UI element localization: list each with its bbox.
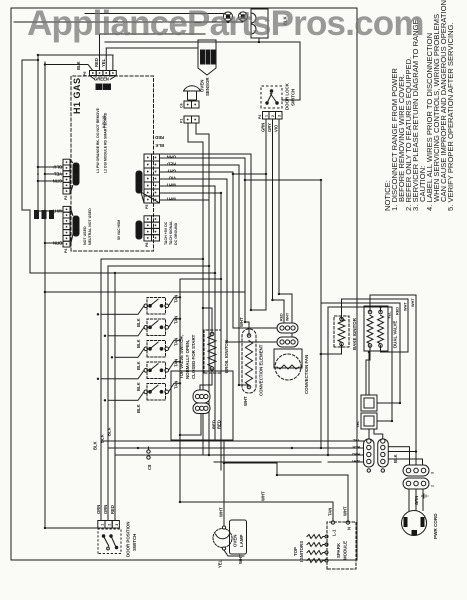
svg-text:CONVECTION ELEMENT: CONVECTION ELEMENT [259, 344, 264, 396]
wire P5 pin drop x435 [160, 164, 239, 166]
wire stub P4 pin WHT [38, 210, 63, 212]
wire valve bus ORN y108 [108, 266, 209, 521]
fan connector oval 1 [277, 323, 298, 333]
trunk wire y233 [232, 172, 234, 328]
svg-text:IGNITORS: IGNITORS [299, 541, 304, 562]
svg-text:RED: RED [280, 313, 284, 321]
wire TAN bus y180 [180, 279, 221, 502]
svg-text:BRN: BRN [53, 241, 62, 246]
convection fan motor [275, 354, 301, 380]
svg-text:BLK: BLK [76, 61, 81, 70]
connector pin marks [66, 72, 197, 245]
wire harness riser YEL x159 [101, 440, 364, 442]
GREEN label pills [96, 84, 111, 90]
svg-text:YEL: YEL [388, 311, 392, 319]
svg-text:SENSOR: SENSOR [205, 77, 210, 96]
svg-text:WHT: WHT [243, 396, 248, 406]
wire WHT riser x137 [224, 462, 277, 464]
svg-text:SPARK: SPARK [336, 542, 341, 558]
power cord plug [402, 511, 427, 536]
door lock motor box [251, 9, 268, 38]
wire bundle x308 [45, 291, 245, 293]
svg-text:BLK: BLK [136, 339, 141, 348]
connector P8 row [144, 216, 160, 241]
wire bake left [320, 344, 342, 354]
svg-text:DUAL VALVE: DUAL VALVE [393, 321, 398, 348]
wire spark WHT [277, 475, 348, 520]
trunk wire y203 [202, 142, 204, 455]
wire door lock motor lead [216, 38, 259, 42]
svg-text:TAN: TAN [174, 316, 179, 324]
svg-text:YEL: YEL [53, 172, 62, 177]
bake ignitor [334, 316, 349, 347]
svg-text:TACH SIGNAL: TACH SIGNAL [169, 220, 173, 245]
svg-text:50 VAC HSM: 50 VAC HSM [117, 220, 121, 240]
wire dual valve right coil1 [370, 295, 416, 312]
wire block A down [377, 420, 392, 422]
valve connector block B [361, 395, 377, 411]
svg-text:GRN: GRN [53, 179, 62, 184]
svg-text:ORN: ORN [96, 505, 101, 514]
wire dual valve left coil1 [366, 346, 370, 396]
svg-text:YEL: YEL [101, 58, 106, 67]
wire dual valve right 2 [380, 307, 382, 312]
svg-text:NORMALLY OPEN,: NORMALLY OPEN, [185, 340, 190, 379]
svg-text:1: 1 [101, 524, 105, 526]
wire long y321 [321, 303, 400, 448]
connector pill WHITE P5 [136, 171, 142, 193]
svg-text:TOP: TOP [293, 547, 298, 556]
wire valve bus ORN y101 [101, 259, 203, 521]
svg-text:WHT: WHT [286, 312, 290, 321]
trunk wire y209 [208, 134, 210, 455]
svg-text:PWR CORD: PWR CORD [433, 513, 438, 539]
svg-text:WHT: WHT [261, 491, 266, 501]
wire conv element left stub [239, 385, 249, 387]
wire right side x552 [106, 47, 198, 49]
wire drop x545 [38, 54, 113, 56]
connector pill WHITE P3 [73, 163, 79, 185]
wire stub P4 pin BRN [45, 242, 63, 244]
wire P5 pin drop x414 [160, 185, 215, 187]
svg-text:C8: C8 [147, 464, 152, 470]
wire terminal stub 1 [227, 20, 229, 23]
wire valve harness y392 [391, 307, 393, 421]
svg-text:WHITE: WHITE [137, 177, 142, 190]
wire cord neutral long y416 [415, 295, 417, 452]
svg-text:BAKE IGNITOR: BAKE IGNITOR [352, 317, 357, 350]
igniter connector oval 2 [193, 403, 210, 414]
wire bus y22 [22, 60, 38, 210]
svg-text:3: 3 [278, 115, 282, 117]
spark module [327, 521, 356, 569]
wire pills to block [368, 429, 370, 439]
trunk wire y245 [244, 158, 246, 322]
svg-text:BLK: BLK [107, 427, 112, 436]
svg-text:RED: RED [167, 162, 176, 167]
wire bus y30 [22, 210, 30, 273]
wire bus y45 [44, 62, 46, 528]
svg-text:GRY: GRY [167, 169, 176, 174]
svg-text:WHITE: WHITE [74, 169, 79, 182]
svg-text:ORN: ORN [103, 505, 108, 514]
top ignitor electrode 2 [307, 551, 325, 555]
svg-text:P8: P8 [145, 243, 149, 247]
svg-text:LAMP: LAMP [239, 534, 244, 547]
wire stub P3 pin YEL [45, 173, 63, 175]
wire bus y38 [37, 55, 39, 211]
wire fan pill2 lead [279, 294, 292, 337]
wire broil right [203, 308, 212, 334]
wire harness riser WHT x138 [328, 461, 364, 463]
svg-text:WHT: WHT [238, 554, 243, 564]
svg-text:RED: RED [155, 135, 164, 140]
svg-text:2: 2 [108, 524, 112, 526]
wire lamp YEL [224, 550, 244, 556]
wire valve bus RED y115 [114, 273, 116, 521]
trunk wire y221 [220, 193, 222, 470]
dual valve [364, 306, 388, 351]
cord connector oval 1 [403, 465, 429, 476]
svg-text:WHT: WHT [219, 507, 224, 517]
wire stub P3 pin BLU [38, 166, 63, 168]
svg-text:P9: P9 [83, 72, 87, 76]
wire dual valve left coil2 [381, 346, 409, 353]
svg-text:TOP VALVE SWITCH,: TOP VALVE SWITCH, [179, 335, 184, 379]
svg-text:WHT: WHT [239, 317, 244, 327]
spark harness connector C1 pill 1 [364, 439, 375, 467]
connector P9 [90, 71, 117, 80]
oven lamp housing [230, 520, 247, 554]
svg-text:BLK: BLK [136, 318, 141, 327]
svg-text:RED: RED [217, 420, 222, 429]
svg-text:OVEN: OVEN [200, 80, 205, 92]
svg-text:WHT: WHT [404, 302, 408, 311]
wire fan pill1 riser [233, 327, 277, 329]
valve connector block A [361, 413, 377, 429]
top ignitor electrode 3 [307, 543, 325, 547]
wire dual valve right coil2 [380, 307, 382, 312]
wire door switch feed x72 [45, 527, 99, 529]
connector P3 row [63, 159, 73, 194]
top ignitor electrode 4 [307, 535, 325, 539]
wire plug leads [408, 489, 410, 511]
top burner valve switch 1 [101, 297, 180, 314]
wire P5 pin drop x421 [160, 178, 227, 180]
svg-text:TACH +5V DC: TACH +5V DC [164, 221, 168, 245]
wire spark TAN [180, 502, 333, 520]
svg-text:GRN: GRN [414, 496, 419, 505]
svg-text:RED: RED [110, 505, 115, 514]
wire bake right [342, 299, 409, 319]
wire harness riser BLK x152 [108, 447, 364, 449]
svg-text:2: 2 [271, 115, 275, 117]
svg-text:BLK: BLK [93, 441, 98, 450]
svg-text:OVEN: OVEN [233, 535, 238, 547]
connector P5 double row [141, 154, 160, 203]
junction dots [37, 54, 39, 56]
svg-text:RED: RED [396, 307, 400, 315]
svg-text:DOOR POSITION: DOOR POSITION [126, 522, 131, 557]
svg-text:DC GROUND: DC GROUND [174, 222, 178, 245]
svg-text:SWITCH: SWITCH [132, 534, 137, 551]
svg-text:WHT: WHT [343, 506, 348, 516]
connector P1 oven sensor [184, 116, 199, 123]
trunk wire y215 [214, 186, 216, 440]
svg-text:VIO: VIO [274, 124, 279, 132]
ground symbol cord [421, 495, 424, 497]
wire P5 pin drop x400 [160, 199, 209, 201]
wire link x420 [245, 179, 321, 181]
svg-text:2: 2 [431, 485, 435, 487]
svg-text:WHITE: WHITE [137, 224, 142, 237]
svg-text:BLK: BLK [100, 434, 105, 443]
door position switch connector [98, 521, 120, 529]
door lock motor connector pentagon [198, 40, 216, 75]
svg-text:1: 1 [265, 115, 269, 117]
wire right side x578 [14, 21, 243, 23]
svg-text:WHT: WHT [351, 459, 360, 463]
svg-text:WHT: WHT [166, 197, 176, 202]
svg-text:BROIL IGNITOR: BROIL IGNITOR [224, 339, 229, 373]
svg-text:L-1: L-1 [332, 529, 337, 536]
wire harness riser RED x145 [115, 454, 364, 456]
svg-text:L1 PW ORANGE BK- DO NOT REMOVE: L1 PW ORANGE BK- DO NOT REMOVE [96, 107, 100, 173]
top burner valve switch 5 [108, 383, 180, 400]
wire link x426 [233, 173, 266, 175]
wire right side x566 [100, 33, 206, 35]
top burner valve switch 2 [108, 319, 180, 336]
wire door lock motor down [259, 42, 300, 100]
oven sensor dome [184, 86, 201, 100]
wire link y321 right [320, 180, 322, 303]
connector P4 row [63, 206, 73, 247]
svg-text:BLK: BLK [136, 382, 141, 391]
svg-text:SWITCH: SWITCH [291, 89, 296, 106]
wire oven sensor BLK [188, 123, 203, 142]
wire P5 pin drop x446 [160, 153, 251, 155]
svg-text:BLK: BLK [155, 143, 164, 148]
svg-text:BLU: BLU [53, 165, 62, 170]
svg-text:WHITE: WHITE [74, 221, 79, 234]
wire lamp WHT return [223, 440, 225, 526]
wire valve harness y400 [399, 303, 401, 403]
svg-text:3: 3 [431, 472, 435, 474]
wire fan pill2 riser [227, 341, 277, 343]
svg-text:TAN: TAN [174, 295, 179, 303]
svg-text:VIO: VIO [168, 176, 176, 181]
svg-text:P2: P2 [258, 115, 262, 119]
svg-text:WHT: WHT [166, 183, 176, 188]
trunk wire y227 [226, 179, 228, 342]
svg-text:ORN: ORN [167, 155, 176, 160]
trunk wire y251 [250, 154, 252, 310]
svg-text:P5: P5 [145, 205, 149, 209]
svg-text:C6: C6 [180, 103, 184, 108]
connector pill WHITE P8 [136, 221, 142, 239]
svg-text:N.PLUG: N.PLUG [102, 115, 106, 128]
wire P9 BLK [45, 65, 93, 71]
svg-text:TAN: TAN [174, 381, 179, 389]
svg-text:NEUTRAL NOT USED: NEUTRAL NOT USED [88, 208, 92, 245]
svg-text:TAN: TAN [174, 359, 179, 367]
door lock switch connector [263, 112, 283, 120]
svg-text:GRN: GRN [261, 123, 266, 132]
svg-text:RED: RED [94, 58, 99, 67]
wire harness riser x138 upper [214, 461, 321, 463]
svg-text:RED: RED [352, 452, 360, 456]
svg-text:N: N [347, 527, 352, 530]
wire valve harness y408 [407, 299, 409, 352]
connector C6 oven sensor [184, 101, 199, 108]
border frame [11, 8, 357, 560]
junction box around igniter connectors [171, 371, 233, 440]
wire door lock sw 2 [272, 119, 274, 300]
svg-text:DOOR LOCK: DOOR LOCK [285, 82, 290, 110]
wire long y328 [328, 307, 392, 455]
wire door lock sw 1 [265, 119, 267, 310]
wire broil left to connector [200, 369, 212, 391]
cord connector oval 2 [403, 478, 429, 489]
wire neutral bridge y277 [276, 463, 278, 475]
svg-text:YEL: YEL [352, 438, 360, 442]
svg-text:BLK: BLK [393, 454, 398, 463]
watermark [27, 4, 424, 44]
wire block B down [377, 402, 400, 404]
svg-text:BLK: BLK [136, 404, 141, 413]
svg-text:NOT USED: NOT USED [83, 226, 87, 245]
wire cord RED [388, 452, 416, 465]
wire stub P3 pin GRN [38, 180, 63, 182]
wire P9 YEL [105, 48, 107, 71]
wire fan pill1 lead [273, 300, 285, 323]
wire P5 pin drop x428 [160, 171, 233, 173]
wire riser x327 [30, 272, 215, 274]
wire P9 pin4 [112, 55, 114, 71]
C8 splice circles [147, 447, 150, 459]
wire P5 pin drop x442 [160, 157, 245, 159]
svg-text:BLK: BLK [352, 445, 360, 449]
wire right side x558 upper [105, 41, 216, 43]
wire cord WHT [388, 459, 423, 464]
fan connector oval 2 [277, 337, 298, 347]
svg-text:CONVECTION FAN: CONVECTION FAN [304, 355, 309, 394]
wire P5 pin drop x407 [160, 192, 221, 194]
svg-text:P3: P3 [64, 196, 68, 200]
svg-text:MODULE: MODULE [343, 541, 348, 560]
svg-text:YEL: YEL [356, 420, 360, 428]
wire door lock sw 3 [278, 119, 280, 294]
broil ignitor [204, 330, 221, 373]
wire cord BLK [388, 447, 410, 464]
svg-text:5. VERIFY PROPER OPERATION AFT: 5. VERIFY PROPER OPERATION AFTER SERVICI… [446, 22, 455, 211]
svg-text:BLK: BLK [136, 361, 141, 370]
door position switch box [98, 529, 121, 554]
wire right side x586 [85, 13, 224, 15]
wire P9 RED [99, 34, 101, 71]
svg-text:GRY: GRY [267, 123, 272, 132]
C1 latch marks [367, 469, 384, 472]
svg-text:CLOSED FOR START: CLOSED FOR START [191, 334, 196, 379]
convection fan housing [274, 349, 302, 368]
machine control dashed box [71, 76, 154, 251]
svg-text:3: 3 [115, 524, 119, 526]
trunk wire y239 [238, 165, 240, 385]
wire block A out [368, 352, 370, 395]
svg-text:TAN: TAN [174, 338, 179, 346]
svg-text:YEL: YEL [218, 559, 223, 568]
top ignitor terminal circles [325, 535, 328, 562]
door lock switch box [261, 86, 282, 108]
connector pill WHITE P4 [73, 216, 79, 236]
svg-text:WHT: WHT [411, 298, 415, 307]
wire conv element right stub [245, 322, 249, 336]
convection element [242, 329, 256, 393]
top ignitor electrode 1 [307, 559, 325, 563]
wire connector pair to tan [180, 413, 201, 435]
wire tag boxes [34, 210, 39, 219]
ground screw terminal 2 [238, 12, 247, 21]
spark harness connector C1 pill 2 [378, 439, 389, 467]
top burner valve switch 4 [101, 362, 180, 379]
svg-text:H1 GAS: H1 GAS [72, 77, 82, 114]
svg-text:P1: P1 [180, 119, 184, 123]
svg-text:P4: P4 [64, 249, 68, 253]
ground screw terminal 1 [223, 12, 232, 21]
wire oven sensor RED [196, 123, 209, 134]
svg-text:GREEN: GREEN [94, 77, 109, 82]
top burner valve switch 3 [115, 340, 180, 357]
oven lamp [213, 526, 232, 550]
igniter connector oval 1 [193, 390, 210, 403]
svg-text:TAN: TAN [328, 508, 333, 516]
